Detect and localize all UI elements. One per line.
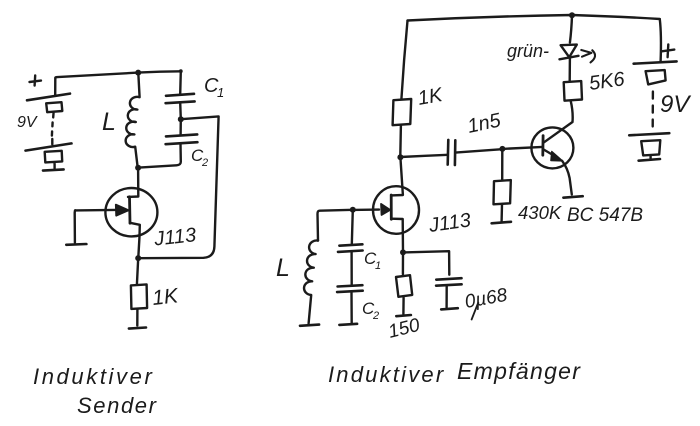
emitter wire down: [562, 161, 572, 195]
emitter end bar: [563, 196, 582, 198]
resistor 150 box: [396, 275, 412, 297]
gate node junction: [350, 207, 356, 213]
resistor 150 bottom wire: [402, 298, 405, 314]
svg-text:1: 1: [217, 85, 224, 100]
battery B2 top plate: [634, 61, 677, 63]
battery B1 bottom plate: [26, 143, 72, 150]
JFET Q3 gate arrow: [381, 204, 390, 215]
JFET Q3 circle: [373, 186, 419, 234]
transistor Q2 base bar: [541, 136, 544, 156]
svg-text:L: L: [276, 254, 290, 282]
LED to 5K6 wire: [569, 58, 572, 82]
inductor L right coil: [304, 240, 318, 323]
battery B1 cell2 box: [45, 151, 63, 169]
capacitor C1 right wire: [352, 210, 353, 245]
svg-text:1: 1: [375, 260, 381, 272]
svg-text:430K: 430K: [518, 202, 563, 223]
svg-text:BC 547B: BC 547B: [567, 205, 643, 226]
capacitor C1 top wire: [179, 71, 182, 94]
ground 0u68 bar: [441, 308, 458, 309]
svg-text:150: 150: [386, 315, 422, 343]
svg-text:Induktiver: Induktiver: [33, 364, 154, 389]
resistor 5K6 box: [564, 81, 582, 101]
svg-text:1K: 1K: [416, 84, 446, 110]
capacitor C2 right plates: [337, 285, 363, 292]
resistor 150 wire: [402, 253, 405, 275]
capacitor C2 bottom wire: [350, 292, 353, 323]
mu descender stroke: [472, 303, 479, 320]
ground 150 bar: [396, 315, 411, 316]
ground L bar: [300, 325, 319, 326]
ground 430K bar: [492, 222, 511, 224]
wire R1K to node A: [399, 125, 402, 156]
svg-text:9V: 9V: [17, 114, 38, 131]
capacitor C1 bottom wire: [179, 103, 182, 119]
wire node B to base: [503, 147, 543, 149]
JFET Q3 channel: [390, 195, 393, 219]
node B junction: [499, 146, 505, 152]
JFET Q1 gate arrow: [116, 205, 129, 216]
svg-text:L: L: [102, 108, 116, 136]
feedback wire to source: [139, 116, 219, 258]
node bottom junction: [135, 165, 141, 171]
transistor Q2 emitter arrow: [551, 152, 563, 161]
svg-text:Induktiver: Induktiver: [328, 362, 445, 387]
LED cathode bar: [560, 56, 579, 60]
JFET Q3 source lead: [391, 219, 403, 252]
transistor Q2 emitter: [543, 149, 554, 155]
wire node A to cap 1n5: [401, 155, 448, 157]
ground gate bar: [66, 243, 86, 246]
capacitor 1n5 plates: [448, 140, 456, 165]
wire battery plus to top node: [55, 73, 138, 96]
JFET Q1 source lead: [130, 223, 140, 258]
svg-text:5K6: 5K6: [588, 68, 627, 95]
svg-text:Sender: Sender: [77, 393, 158, 418]
svg-text:0µ68: 0µ68: [463, 285, 509, 313]
wire source to 0u68: [403, 251, 449, 275]
svg-text:1K: 1K: [151, 284, 180, 310]
battery B2 bottom plate: [629, 133, 669, 135]
battery B2 cell1 box: [646, 70, 666, 84]
capacitor C1 plates: [166, 94, 195, 103]
wire cap to node B: [455, 149, 502, 152]
source junction right: [400, 249, 406, 255]
svg-text:J113: J113: [427, 209, 473, 237]
source junction: [135, 255, 141, 261]
gate wire bend down: [73, 210, 76, 242]
wire node to JFET drain: [128, 168, 138, 197]
battery B1 end bar: [43, 169, 64, 170]
ground C2 bar: [339, 324, 357, 325]
LED triangle: [561, 45, 577, 58]
JFET Q1 circle: [105, 188, 157, 236]
wire top node to C1: [138, 71, 181, 72]
top rail node: [569, 12, 575, 18]
resistor 430K bottom wire: [500, 204, 503, 221]
battery B1 cell1 box: [46, 102, 62, 117]
battery B2 plus sign: [662, 44, 675, 57]
node mid junction: [178, 116, 184, 122]
node A junction: [397, 154, 403, 160]
transistor Q2 circle: [531, 127, 573, 168]
node C1 top tick: [179, 69, 183, 73]
JFET Q1 channel: [128, 197, 131, 223]
capacitor 0u68 bottom wire: [445, 286, 448, 308]
capacitor 0u68 plates: [436, 278, 462, 286]
LED light arrows: [581, 50, 595, 62]
right branch wire to battery: [660, 19, 661, 61]
wire node A down to JFET drain: [391, 157, 403, 195]
battery B2 cell2 box: [641, 140, 660, 159]
capacitor C2 top wire: [179, 119, 182, 135]
capacitor C2 plates: [166, 134, 198, 144]
svg-text:J113: J113: [152, 224, 197, 250]
resistor 430K box: [494, 180, 511, 204]
left branch wire down to R 1K: [401, 21, 407, 100]
battery B1 plus sign: [30, 75, 42, 85]
end bar R1: [129, 328, 146, 329]
inductor L coil: [126, 73, 140, 167]
top rail: [408, 15, 660, 21]
svg-text:Empfänger: Empfänger: [457, 358, 581, 384]
capacitor C1 to C2 wire: [350, 252, 353, 285]
wire source to R1: [137, 258, 138, 284]
svg-text:1n5: 1n5: [465, 109, 503, 138]
battery B1 dashed link: [51, 123, 54, 145]
battery B1 top plate: [27, 94, 70, 101]
svg-text:2: 2: [201, 157, 208, 169]
node top junction: [135, 70, 141, 76]
resistor R1 1K box: [131, 284, 147, 309]
JFET Q1 gate wire: [75, 209, 115, 212]
svg-text:2: 2: [372, 310, 379, 322]
LED anode wire: [570, 16, 572, 43]
capacitor C1 right plates: [338, 244, 363, 252]
resistor R1 bottom wire: [136, 309, 138, 326]
resistor 430K wire down: [501, 149, 503, 180]
battery B2 end bar: [639, 159, 660, 161]
resistor 1K box: [393, 99, 412, 125]
transistor Q2 collector: [544, 101, 573, 142]
capacitor C2 bottom wire: [139, 144, 181, 168]
wire gate node left and down: [317, 210, 352, 241]
svg-text:9V: 9V: [660, 91, 691, 118]
JFET Q3 gate wire: [353, 208, 379, 211]
battery B2 dashed link: [652, 92, 655, 127]
svg-text:grün-: grün-: [507, 41, 549, 61]
